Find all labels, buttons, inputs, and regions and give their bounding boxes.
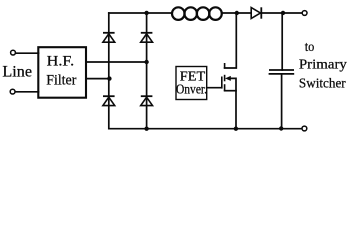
svg-text:Line: Line xyxy=(2,64,32,81)
svg-text:H.F.: H.F. xyxy=(47,53,75,69)
channel segment middle (body) xyxy=(224,75,226,82)
wire: top input terminal lead xyxy=(15,52,38,54)
terminal: line input top xyxy=(11,50,16,55)
svg-text:Onver.: Onver. xyxy=(176,82,207,97)
junction: top bus x drain xyxy=(235,11,239,15)
junction: right rail x AC input 1 xyxy=(144,60,148,64)
wire: top bus between inductor and diode D5 xyxy=(222,12,251,14)
wire: bottom input terminal lead xyxy=(15,91,39,93)
diode D4 bridge bottom-right xyxy=(141,96,153,105)
diode D1 bridge top-left xyxy=(103,33,115,42)
channel segment top (drain) xyxy=(224,63,226,69)
svg-text:Switcher: Switcher xyxy=(299,76,346,91)
wire: AC input 1 from filter box to right rail (crosses left rail) xyxy=(86,61,147,63)
box U1 H.F. Filter xyxy=(38,47,86,97)
terminal: output top xyxy=(302,11,307,16)
gate bar xyxy=(221,77,223,89)
wire: MOSFET body tie and source vertical xyxy=(230,78,237,128)
diode D5 output rectifier xyxy=(251,7,261,18)
junction: bottom bus x right rail xyxy=(144,127,148,131)
diode D2 bridge top-right xyxy=(141,33,153,42)
wire: right bridge rail xyxy=(146,13,148,129)
channel segment bottom (source) xyxy=(224,84,226,91)
wire: capacitor bottom lead to bottom bus xyxy=(281,74,283,129)
wire: left bridge rail + bottom bus xyxy=(109,13,302,129)
diode D3 bridge bottom-left xyxy=(103,96,115,105)
junction: top bus x right rail xyxy=(144,11,148,15)
svg-text:Filter: Filter xyxy=(46,73,76,89)
junction: bottom bus x capacitor xyxy=(279,126,283,130)
svg-text:Primary: Primary xyxy=(299,57,347,72)
wire: MOSFET drain lead up to top bus xyxy=(225,13,237,68)
wire: gate lead from FET box xyxy=(207,87,221,89)
transistor Q1 MOSFET xyxy=(222,63,225,91)
wire: top bus from D5 cathode to output terminal xyxy=(261,12,302,14)
junction: left rail x AC input 2 xyxy=(107,76,111,80)
Q1 body arrow xyxy=(225,76,231,81)
wire: AC input 2 from filter box to left rail xyxy=(86,78,109,80)
wire: top bus left segment (rail to inductor) xyxy=(109,12,172,14)
terminal: line input bottom xyxy=(10,89,15,94)
svg-text:to: to xyxy=(305,39,315,54)
box U2 FET Onver. xyxy=(176,67,207,100)
inductor L1 xyxy=(172,7,222,20)
capacitor C1 top plate xyxy=(269,69,294,71)
junction: top bus x capacitor xyxy=(281,11,285,15)
junction: bottom bus x source xyxy=(234,127,238,131)
wire: MOSFET source lead down to bottom bus xyxy=(225,90,236,92)
wire: capacitor top lead from top bus xyxy=(281,13,283,70)
terminal: output bottom xyxy=(302,126,307,131)
capacitor C1 bottom plate xyxy=(269,73,295,75)
